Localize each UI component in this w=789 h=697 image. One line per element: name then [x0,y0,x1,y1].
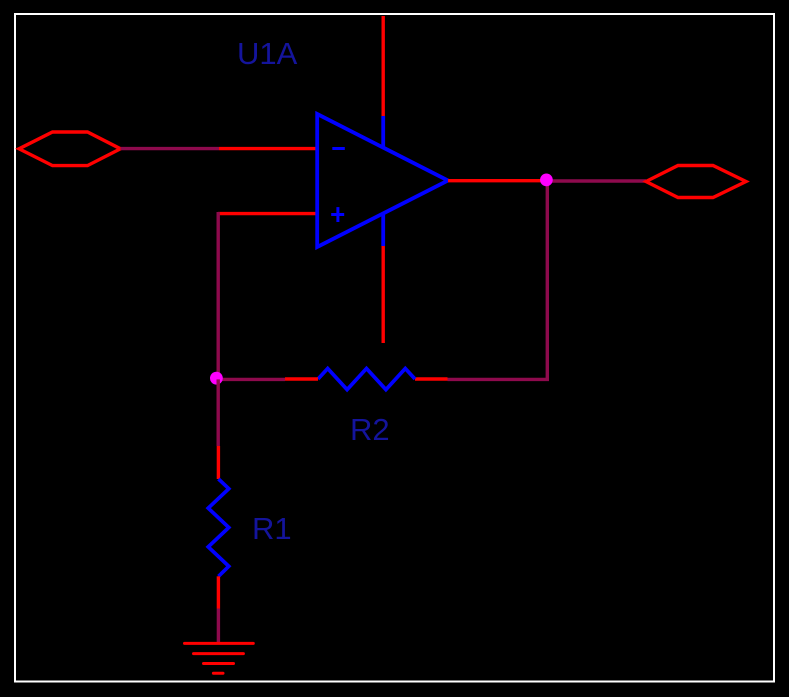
ground [185,643,254,673]
svg-text:R2: R2 [350,412,390,447]
op-amp U1A [317,114,448,247]
wire input net (purple) [121,147,220,150]
resistor R1 [208,479,229,576]
wire output (red) [448,179,546,182]
op-amp U1A triangle body [317,114,448,247]
resistor R2 [318,369,415,390]
wire V+ power (red, top) [382,16,385,117]
wire R1 bottom lead (red) [217,576,220,608]
wire R2 right lead (red) [415,377,448,380]
wire node down (purple) [216,379,219,446]
svg-text:U1A: U1A [237,36,298,71]
wire node to R2 (purple) [217,378,286,381]
svg-text:R1: R1 [252,511,292,546]
wire inverting input (red) [219,147,316,150]
wire feedback vertical left (purple) [216,212,219,379]
junction node output [540,174,553,187]
op-amp U1A inverting input minus mark [332,147,345,150]
wire non-inverting input (red) [218,212,316,215]
op-amp U1A V+ power pin [381,116,385,148]
port output hexagon [646,166,746,198]
wire R2 left lead (red) [285,377,318,380]
wire V- power (red, below op-amp) [382,246,385,344]
wire output net to port (purple) [547,179,647,182]
port input hexagon [19,132,121,166]
op-amp U1A non-inverting input plus mark [331,213,344,216]
wire to ground (purple) [217,609,220,644]
wire R1 top lead (red) [217,446,220,479]
wire feedback vertical right (purple) [546,181,549,380]
wire feedback horizontal right (purple) [448,378,550,381]
op-amp U1A V- power pin [381,214,385,247]
junction node feedback [210,372,223,385]
